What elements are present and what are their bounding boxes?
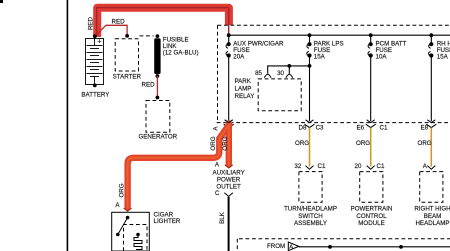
park lamp relay K1 (dashed box) <box>258 79 301 111</box>
svg-text:ORG: ORG <box>295 140 309 147</box>
wire starter stud to fusible link (dashed) <box>140 35 154 37</box>
svg-text:E6: E6 <box>357 125 365 132</box>
connector A aux outlet (dark red over highlight) <box>225 165 233 168</box>
node bus junction 1 <box>227 33 231 37</box>
node bottom junction 2 <box>399 245 403 249</box>
node bottom junction 1 <box>328 245 332 249</box>
node generator terminal <box>156 96 160 100</box>
svg-text:20A: 20A <box>233 53 245 60</box>
generator (dashed box) <box>146 101 170 133</box>
svg-text:RED: RED <box>88 16 95 30</box>
svg-text:C3: C3 <box>316 125 324 132</box>
corner artifact <box>0 0 3 3</box>
cigar lighter box <box>112 212 150 251</box>
wire bottom bus <box>299 246 450 248</box>
battery B1 <box>86 39 104 85</box>
svg-text:BLK: BLK <box>219 211 226 224</box>
svg-text:TURN/HEADLAMP: TURN/HEADLAMP <box>284 206 337 213</box>
svg-text:RED: RED <box>112 19 126 26</box>
fuse PARK LPS 15A <box>307 43 311 58</box>
node bus junction 3 <box>369 33 373 37</box>
svg-text:RIGHT HIGH: RIGHT HIGH <box>414 206 450 213</box>
node battery negative terminal <box>93 84 97 88</box>
wire to park lamp relay pins <box>268 66 310 74</box>
node fusible link bottom <box>156 74 160 78</box>
svg-text:C1: C1 <box>318 163 326 170</box>
connector col1 female half <box>224 124 234 127</box>
wire highlight to aux power outlet <box>226 124 232 165</box>
svg-text:D8: D8 <box>299 125 307 132</box>
svg-text:LAMP: LAMP <box>235 86 252 93</box>
svg-text:HEADLAMP: HEADLAMP <box>415 220 449 227</box>
switch arm cigar <box>118 218 128 235</box>
svg-text:AUXILIARY: AUXILIARY <box>212 170 244 177</box>
wire fuse F4 to connector E8 <box>430 56 432 122</box>
svg-text:(12 GA-BLU): (12 GA-BLU) <box>163 50 199 57</box>
fuse block bottom edge <box>217 122 450 124</box>
svg-text:30: 30 <box>277 70 284 77</box>
connector D8/C3 <box>306 120 314 123</box>
fuse RH HI 15A <box>429 43 433 58</box>
svg-text:20: 20 <box>355 163 362 170</box>
svg-text:+: + <box>98 38 102 45</box>
wire bus to fuse F1 <box>228 35 230 44</box>
wire highlight to cigar lighter <box>128 125 229 208</box>
node park lamp relay tee <box>308 64 312 68</box>
svg-text:C1: C1 <box>377 163 385 170</box>
wire battery to underhood fuse block (RED highlight band) <box>97 8 229 37</box>
svg-text:POWER: POWER <box>217 177 241 184</box>
svg-text:15A: 15A <box>437 53 449 60</box>
node battery positive terminal <box>93 34 97 38</box>
node pin30 junction <box>287 64 291 68</box>
wire thin RED core under highlight <box>97 8 229 37</box>
turn/headlamp switch assembly (dashed box) <box>299 172 322 203</box>
connector E8 <box>427 120 435 123</box>
svg-text:ORG: ORG <box>222 136 229 150</box>
svg-text:ORG: ORG <box>356 140 370 147</box>
wire pin 30 <box>288 66 290 74</box>
node switch arm end <box>116 233 120 237</box>
connector A (headlamp) <box>427 166 435 170</box>
svg-text:FROM: FROM <box>267 243 285 250</box>
left pane divider line <box>66 0 68 251</box>
fuse AUX PWR/CIGAR 20A <box>226 43 230 58</box>
wire fuse F3 to connector E6 <box>370 56 372 122</box>
connector E6/C1 <box>367 120 375 123</box>
wire battery to starter (thin RED) <box>95 25 127 36</box>
connector 32/C1 <box>306 166 314 170</box>
svg-text:MODULE: MODULE <box>358 220 384 227</box>
right high beam headlamp (dashed box) <box>420 172 443 203</box>
fuse block top edge <box>218 24 450 26</box>
svg-text:10A: 10A <box>376 53 388 60</box>
pin 85 socket <box>264 74 271 78</box>
wire fusible link to generator (RED) <box>156 76 158 98</box>
svg-text:15A: 15A <box>314 53 326 60</box>
wire bus to fuse F2 <box>309 35 311 44</box>
bus bar inside fuse block <box>229 34 450 36</box>
node fusible link top <box>156 34 160 38</box>
svg-text:C: C <box>215 190 220 197</box>
node bus junction 2 <box>308 33 312 37</box>
svg-text:OUTLET: OUTLET <box>216 184 241 191</box>
heating element zigzag <box>134 235 142 250</box>
bottom box top edge <box>239 238 450 240</box>
powertrain control module (dashed box) <box>360 172 383 203</box>
connector male col1 redrawn <box>225 120 233 123</box>
fuse block left edge <box>217 25 219 122</box>
cigar element dashed sub-box <box>124 225 148 251</box>
svg-text:BATTERY: BATTERY <box>81 92 109 99</box>
wire thin ORG core aux <box>228 124 230 166</box>
fusible link (12 GA-BLU) <box>154 38 160 74</box>
wire fuse F1 to connector A <box>228 56 230 122</box>
svg-text:LIGHTER: LIGHTER <box>154 218 181 225</box>
wire ORG to turn/headlamp switch <box>309 128 311 167</box>
svg-text:A: A <box>289 245 293 251</box>
from-arrow symbol A <box>288 242 299 251</box>
wire thin ORG core cigar <box>128 125 229 209</box>
svg-text:ORG: ORG <box>119 183 126 197</box>
node cigar contact <box>126 216 130 220</box>
node element top <box>136 233 140 237</box>
pin 30 socket <box>286 74 293 78</box>
node bus junction 4 <box>429 33 433 37</box>
wire ORG to PCM <box>370 128 372 167</box>
connector 20/C1 <box>367 166 375 170</box>
svg-text:RELAY: RELAY <box>235 93 255 100</box>
svg-text:GENERATOR: GENERATOR <box>138 133 177 140</box>
fuse PCM BATT 10A <box>368 43 372 58</box>
wire BLK from aux outlet <box>228 197 230 251</box>
svg-text:32: 32 <box>294 163 301 170</box>
svg-text:ASSEMBLY: ASSEMBLY <box>294 220 327 227</box>
svg-text:POWERTRAIN: POWERTRAIN <box>351 206 393 213</box>
svg-text:ORG: ORG <box>210 136 217 150</box>
svg-text:PARK: PARK <box>235 78 252 85</box>
connector col1 male half <box>225 120 233 123</box>
wire bus to fuse F4 <box>430 35 432 44</box>
node starter stud <box>125 34 129 38</box>
wire fuse F2 down to connector D8 <box>309 56 311 122</box>
svg-text:STARTER: STARTER <box>113 74 142 81</box>
svg-text:RED: RED <box>142 82 156 89</box>
svg-text:ORG: ORG <box>418 140 432 147</box>
connector C aux outlet <box>224 193 233 197</box>
starter (dashed box) <box>115 39 138 71</box>
svg-text:E8: E8 <box>421 125 429 132</box>
svg-text:C1: C1 <box>380 125 388 132</box>
svg-text:85: 85 <box>255 70 262 77</box>
bottom box left edge <box>236 239 238 251</box>
wire ORG to RH headlamp <box>430 128 432 167</box>
connector A cigar (dark red over highlight) <box>124 208 132 211</box>
wire bus to fuse F3 <box>370 35 372 44</box>
